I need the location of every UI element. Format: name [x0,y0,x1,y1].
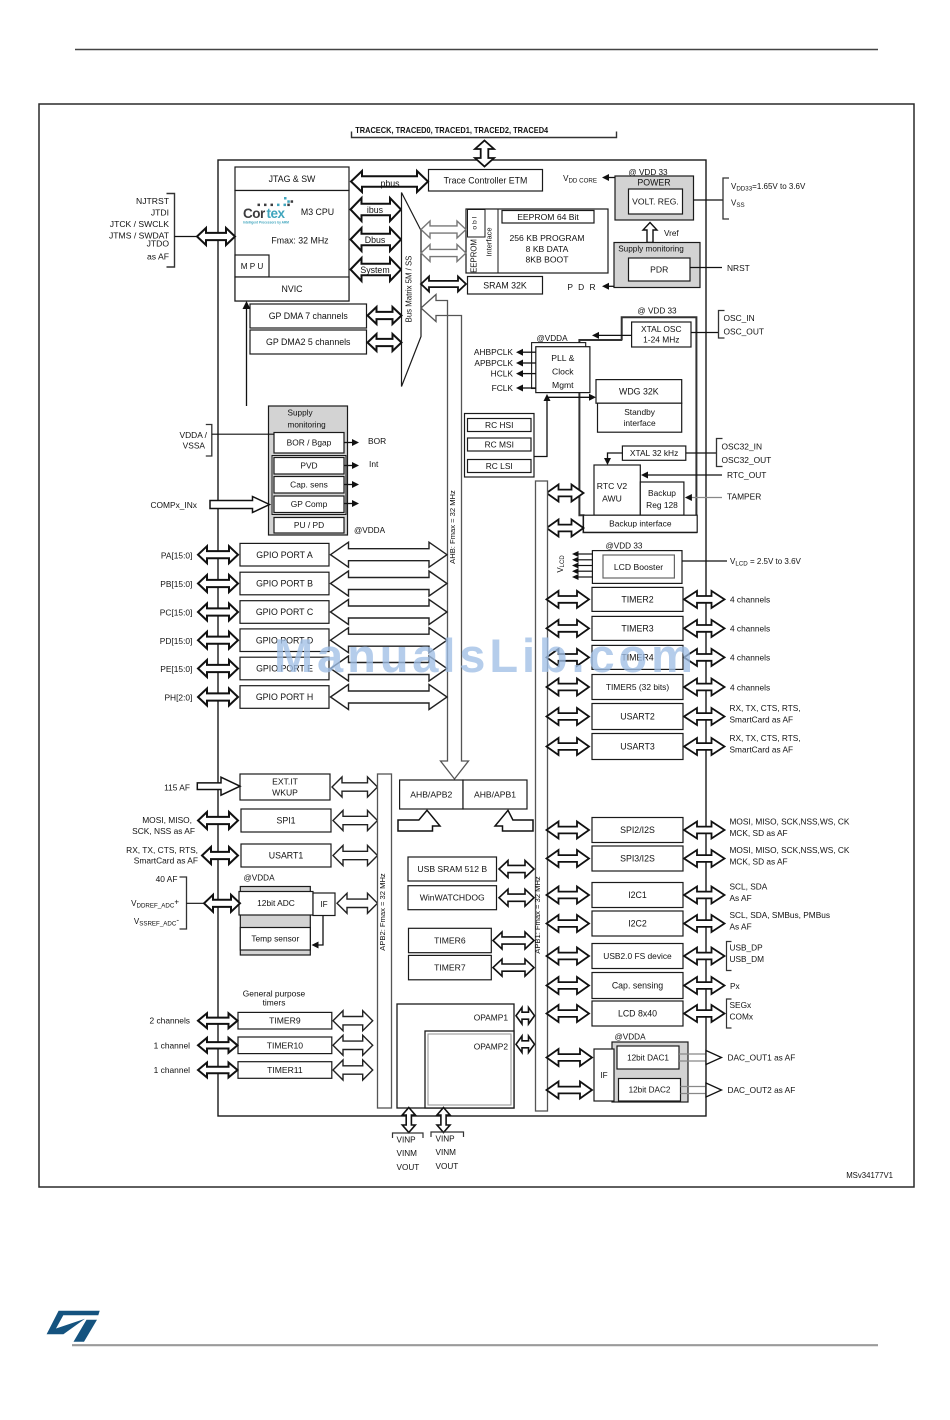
block RC LSI [468,460,532,473]
arrow TIMER11 to APB2 [333,1060,373,1080]
block supply monitoring left [269,406,348,535]
wire VLCD out [682,560,727,562]
arrow cap sens out [344,484,352,486]
block VOLT REG [629,189,683,214]
block WDG 32K [596,380,682,404]
svg-text:GP Comp: GP Comp [291,499,328,509]
svg-text:ibus: ibus [367,205,384,215]
arrow APB1 to TIMER5 (32 bits) [547,679,590,696]
svg-text:Int: Int [369,459,379,469]
arrow OPAMP2 pins [437,1108,450,1133]
arrow SPI1 left [198,812,238,829]
arrow APB1 to USART3 [547,738,590,755]
svg-text:o b I: o b I [472,216,479,229]
svg-text:GPIO PORT A: GPIO PORT A [256,550,313,560]
svg-text:AHB/APB1: AHB/APB1 [474,790,516,800]
svg-text:Dbus: Dbus [365,235,386,245]
block BOR Bgap [274,433,344,454]
svg-text:BOR / Bgap: BOR / Bgap [287,438,332,448]
svg-text:as AF: as AF [147,252,169,262]
svg-text:12bit ADC: 12bit ADC [257,898,295,908]
arrow GP comp out [344,503,352,505]
svg-text:@VDDA: @VDDA [536,334,568,343]
svg-text:SmartCard as AF: SmartCard as AF [730,714,794,724]
svg-text:PB[15:0]: PB[15:0] [160,579,192,589]
svg-text:Cap. sensing: Cap. sensing [612,981,663,991]
svg-text:USART1: USART1 [269,851,304,861]
block PVD [274,458,344,475]
svg-text:SRAM 32K: SRAM 32K [483,280,527,290]
block RC HSI [468,419,532,432]
svg-text:VINP: VINP [397,1136,417,1145]
svg-text:TIMER10: TIMER10 [267,1040,304,1050]
block flash memory [466,209,608,273]
svg-text:AWU: AWU [602,494,622,504]
arrow APB1 to DAC1 [547,1049,593,1066]
svg-text:8 KB DATA: 8 KB DATA [526,244,569,254]
arrow bus to flash 2 [421,245,466,262]
arrow PE[15:0] left [198,660,238,677]
svg-text:RC HSI: RC HSI [485,420,513,430]
svg-text:VOUT: VOUT [436,1162,459,1171]
svg-text:As AF: As AF [730,921,752,931]
block I2C1 [592,883,683,908]
trace bracket [352,132,617,138]
svg-text:SCL, SDA, SMBus, PMBus: SCL, SDA, SMBus, PMBus [730,910,831,920]
block EEPROM 64 Bit [502,211,594,224]
svg-text:Fmax: 32 MHz: Fmax: 32 MHz [271,236,328,246]
arrow TIMER5 (32 bits) out [684,679,725,696]
svg-text:COMPx_INx: COMPx_INx [150,500,197,510]
arrow PB[15:0] left [198,575,238,592]
svg-text:115 AF: 115 AF [164,783,190,793]
arrow DMA1 to bus matrix [368,307,402,324]
svg-text:@ VDD 33: @ VDD 33 [637,307,677,316]
bracket ADC refs [180,877,187,929]
block TIMER3 [592,616,683,640]
svg-text:NVIC: NVIC [281,284,303,294]
bracket USB2.0 FS device [727,942,732,971]
svg-text:pbus: pbus [380,179,400,189]
svg-text:PDR: PDR [650,265,668,275]
svg-text:MCK, SD as AF: MCK, SD as AF [730,856,788,866]
arrow USB2.0 FS device out [684,948,725,965]
svg-text:GP DMA2 5 channels: GP DMA2 5 channels [266,337,351,347]
svg-text:GPIO PORT H: GPIO PORT H [256,692,313,702]
svg-text:SPI3/I2S: SPI3/I2S [620,854,655,864]
svg-text:tex: tex [267,206,286,221]
svg-text:Intelligent Processors by ARM: Intelligent Processors by ARM [243,221,289,225]
svg-text:PLL &: PLL & [551,353,574,363]
bus matrix polygon [402,193,422,387]
block temp sensor [240,928,310,951]
svg-text:SEGx: SEGx [730,1000,753,1010]
arrow GPIO PORT A to AHB [331,542,448,567]
block GP DMA 7 channels [250,304,367,328]
svg-text:Interface: Interface [485,227,494,256]
svg-text:FCLK: FCLK [492,383,514,393]
arrow SPI1 to APB2 [333,811,378,831]
block NVIC [235,277,349,301]
block TIMER7 [409,955,492,979]
flash obI box [468,210,486,238]
svg-text:APB2: Fmax = 32 MHz: APB2: Fmax = 32 MHz [378,873,387,951]
arrow LCD 8x40 out [684,1005,725,1022]
svg-text:MOSI, MISO, SCK,NSS,WS, CK: MOSI, MISO, SCK,NSS,WS, CK [730,817,850,827]
svg-text:OSC_IN: OSC_IN [724,313,755,323]
svg-text:USART2: USART2 [620,712,655,722]
arrow ADC to APB2 [337,893,378,913]
arrow PH[2:0] left [198,689,238,706]
arrow TIMER9 left [198,1013,238,1028]
arrow APB1 to Cap. sensing [547,977,590,994]
block GPIO PORT C [240,601,329,624]
svg-text:AHB/APB2: AHB/APB2 [410,790,452,800]
arrow USART1 left [202,847,238,864]
block TIMER2 [592,587,683,611]
svg-text:OSC32_OUT: OSC32_OUT [722,455,772,465]
block SPI2/I2S [592,818,683,843]
svg-text:USB SRAM 512 B: USB SRAM 512 B [417,864,487,874]
svg-text:USB_DM: USB_DM [730,954,765,964]
svg-text:COMx: COMx [730,1011,754,1021]
arrow SPI3/I2S out [684,850,725,867]
block TIMER9 [238,1012,332,1029]
svg-text:LCD Booster: LCD Booster [614,562,663,572]
block LCD 8x40 [592,1001,683,1026]
wire TAMPER [691,497,723,499]
svg-text:M3 CPU: M3 CPU [301,207,334,217]
svg-text:Supply monitoring: Supply monitoring [618,245,684,254]
arrow APB1 to SPI3/I2S [547,850,590,867]
svg-text:SmartCard as AF: SmartCard as AF [730,744,794,754]
arrow GPIO PORT E to AHB [331,656,448,681]
svg-text:256 KB PROGRAM: 256 KB PROGRAM [510,233,585,243]
arrow I2C1 out [684,887,725,904]
block Cortex M3 CPU [235,191,349,302]
block GP Comp [274,496,344,513]
svg-text:VINM: VINM [436,1148,457,1157]
svg-text:@VDDA: @VDDA [354,526,386,535]
svg-text:Mgmt: Mgmt [552,380,574,390]
block standby interface [598,403,682,432]
bracket VIN group1 [393,1133,424,1138]
svg-text:As AF: As AF [730,893,752,903]
inner diagram frame [218,160,706,1116]
wire RC to PLL [534,400,547,457]
svg-text:JTCK / SWCLK: JTCK / SWCLK [110,219,169,229]
block POWER [615,176,694,220]
svg-text:MCK, SD as AF: MCK, SD as AF [730,828,788,838]
JTAG pin labels [109,196,170,262]
svg-text:XTAL OSC: XTAL OSC [641,324,682,334]
arrow APB1 to TIMER3 [547,620,590,637]
svg-text:VINM: VINM [397,1149,418,1158]
block USB2.0 FS device [592,944,683,969]
svg-text:Supply: Supply [288,408,314,417]
wire XTAL32 right [686,452,717,454]
bracket VIN group2 [431,1132,464,1137]
block XTAL OSC [632,322,691,347]
block TIMER10 [238,1037,332,1054]
svg-text:AHB: Fmax = 32 MHz: AHB: Fmax = 32 MHz [448,490,457,564]
svg-text:POWER: POWER [637,178,670,188]
outer figure frame [39,104,914,1187]
svg-text:TIMER9: TIMER9 [269,1016,301,1026]
block USB SRAM 512 B [408,857,497,881]
svg-text:NRST: NRST [727,263,750,273]
wire IF to temp sensor [317,916,323,946]
arrow APB1 to I2C2 [547,915,590,932]
bracket OSC [719,311,725,339]
svg-text:PA[15:0]: PA[15:0] [161,550,193,560]
wire VDD CORE [608,177,615,179]
block AHB APB2 bridge [400,780,463,809]
block OPAMP2 [425,1031,514,1108]
block Cap. sensing [592,973,683,999]
bracket VDD33 [723,178,729,219]
block RC group [465,414,535,478]
block backup interface [584,515,698,532]
svg-text:NJTRST: NJTRST [136,196,170,206]
bracket LCD 8x40 [727,999,732,1028]
svg-text:IF: IF [600,1071,607,1080]
svg-text:RC MSI: RC MSI [485,439,514,449]
svg-text:I2C2: I2C2 [628,919,647,929]
arrow JTAG CPU [197,228,235,245]
svg-text:GP DMA 7 channels: GP DMA 7 channels [269,311,349,321]
block PLL clock mgmt [532,343,586,389]
arrow TIMER3 out [684,620,725,637]
svg-text:JTDO: JTDO [147,239,170,249]
svg-text:@VDD 33: @VDD 33 [606,542,643,551]
svg-text:System: System [360,265,389,275]
svg-text:12bit DAC1: 12bit DAC1 [627,1053,669,1062]
flash interface divider [497,209,499,273]
svg-text:monitoring: monitoring [288,421,327,430]
arrow APB1 to USB2.0 FS device [547,948,590,965]
arrow USART3 out [684,738,725,755]
block GPIO PORT H [240,686,329,709]
svg-text:@VDDA: @VDDA [614,1033,646,1042]
block ADC IF [313,893,335,916]
svg-text:VOUT: VOUT [397,1163,420,1172]
svg-text:TAMPER: TAMPER [727,492,761,502]
svg-text:Cor: Cor [243,206,266,221]
svg-text:PD[15:0]: PD[15:0] [160,636,193,646]
JTAG bracket [167,194,175,268]
arrow SPI2/I2S out [684,822,725,839]
arrow PVD out [344,465,352,467]
block I2C2 [592,911,683,936]
svg-text:TIMER5 (32 bits): TIMER5 (32 bits) [606,682,670,692]
svg-text:GPIO PORT B: GPIO PORT B [256,579,313,589]
bus arrow Dbus [351,228,402,251]
svg-text:GPIO PORT C: GPIO PORT C [256,607,314,617]
bracket OSC32 [717,439,723,467]
svg-text:IF: IF [320,900,327,909]
svg-text:TIMER2: TIMER2 [621,595,653,605]
arrow TIMER9 to APB2 [333,1011,373,1031]
arrow OPAMP1 to APB1 [516,1008,535,1025]
elbow arrow bridge to APB2 [398,810,440,831]
svg-text:VOLT. REG.: VOLT. REG. [632,197,679,207]
VLCD arrows [572,551,592,580]
arrow TIMER7 to APB1 [493,959,534,976]
svg-text:4 channels: 4 channels [730,682,770,692]
block DAC group [612,1042,688,1102]
svg-text:ManualsLib.com: ManualsLib.com [274,629,697,682]
arrow Vref [643,223,657,243]
arrow USART1 to APB2 [333,846,378,866]
block XTAL 32 kHz [622,446,685,460]
arrow APB1 to DAC2 [547,1082,593,1099]
arrow I2C2 out [684,915,725,932]
APB2 bus band [378,774,392,1108]
block GPIO PORT D [240,629,329,652]
svg-text:AHBPCLK: AHBPCLK [474,347,514,357]
arrow DAC OUT2 [681,1086,707,1088]
svg-text:Backup interface: Backup interface [609,519,672,529]
wire to WDG [547,396,591,398]
svg-text:4 channels: 4 channels [730,653,770,663]
block TIMER11 [238,1062,332,1079]
svg-text:WinWATCHDOG: WinWATCHDOG [420,893,485,903]
wire JTAG to CPU [175,236,199,238]
svg-text:EEPROM 64 Bit: EEPROM 64 Bit [517,212,579,222]
wire bracket to arrow [187,902,205,904]
svg-text:MOSI, MISO,: MOSI, MISO, [142,815,192,825]
svg-text:Backup: Backup [648,488,676,498]
block DAC IF [594,1049,614,1101]
block AHB APB1 bridge [463,780,527,809]
svg-text:PH[2:0]: PH[2:0] [164,693,192,703]
block Trace Controller ETM [429,170,543,192]
svg-text:TIMER7: TIMER7 [434,963,466,973]
svg-text:MOSI, MISO, SCK,NSS,WS, CK: MOSI, MISO, SCK,NSS,WS, CK [730,845,850,855]
arrow 115AF to EXTIT [197,777,240,795]
arrow OPAMP1 pins [402,1108,415,1133]
arrow PA[15:0] left [198,546,238,563]
block 12bit DAC2 [619,1079,681,1102]
wire XTAL OSC to PLL [597,334,632,336]
svg-text:VINP: VINP [436,1135,456,1144]
block supply monitoring PDR [614,243,700,288]
svg-text:RC LSI: RC LSI [486,461,513,471]
svg-text:SCK, NSS as AF: SCK, NSS as AF [132,826,195,836]
arrow APB1 to I2C1 [547,887,590,904]
svg-text:Cap. sens: Cap. sens [290,480,328,490]
APB1 bus band [536,481,548,1111]
block SPI1 [241,809,331,832]
svg-text:EEPROM: EEPROM [470,239,479,273]
wire XTAL OSC right [691,332,719,334]
svg-text:RX, TX, CTS, RTS,: RX, TX, CTS, RTS, [730,703,801,713]
svg-text:P D R: P D R [567,282,597,292]
block USART2 [592,704,683,730]
arrow GPIO PORT B to AHB [331,571,448,596]
svg-text:Bus Matrix 5M / SS: Bus Matrix 5M / SS [405,256,414,323]
svg-text:USB_DP: USB_DP [730,943,764,953]
svg-text:WKUP: WKUP [272,788,298,798]
VDD33 domain outline [579,317,696,532]
block EXT IT WKUP [240,774,330,800]
bus arrow pbus [351,171,428,192]
svg-text:MSv34177V1: MSv34177V1 [846,1171,893,1180]
block RTC V2 AWU [594,465,640,515]
svg-text:Temp sensor: Temp sensor [251,934,299,944]
clock output arrows [474,347,536,393]
arrow bus to flash 1 [421,221,466,238]
trace vertical double arrow [475,141,494,167]
svg-text:DAC_OUT2 as AF: DAC_OUT2 as AF [728,1085,796,1095]
arrow ADC left [204,895,240,912]
block USART3 [592,734,683,760]
arrow BOR out [344,442,352,444]
wire NVIC to supply monitoring [246,307,248,406]
wire POWER to bracket [694,199,723,201]
arrow GPIO PORT H to AHB [331,685,448,710]
svg-text:TIMER6: TIMER6 [434,936,466,946]
svg-text:1 channel: 1 channel [154,1065,190,1075]
svg-text:2 channels: 2 channels [149,1016,190,1026]
svg-text:RX, TX, CTS, RTS,: RX, TX, CTS, RTS, [730,733,801,743]
footer rule [72,1344,878,1346]
svg-text:HCLK: HCLK [491,369,514,379]
block GPIO PORT E [240,657,329,680]
wire VDDA to BOR [212,433,274,435]
svg-text:1 channel: 1 channel [154,1040,190,1050]
arrow OPAMP2 to APB1 [516,1036,535,1053]
svg-text:PVD: PVD [300,461,317,471]
arrow TIMER4 out [684,649,725,666]
svg-text:Standby: Standby [624,407,656,417]
svg-text:LCD 8x40: LCD 8x40 [618,1009,657,1019]
ST logo [47,1311,100,1342]
svg-text:TRACECK, TRACED0, TRACED1, TRA: TRACECK, TRACED0, TRACED1, TRACED2, TRAC… [355,125,548,135]
svg-text:APBPCLK: APBPCLK [474,358,513,368]
svg-text:interface: interface [624,418,656,428]
svg-text:PU / PD: PU / PD [294,520,324,530]
block LCD booster [592,551,682,584]
bracket VDDA [206,425,212,457]
arrow WinWATCHDOG to APB1 [499,889,534,906]
svg-text:USB2.0 FS device: USB2.0 FS device [603,951,672,961]
block OPAMP1 [397,1004,514,1108]
block GP DMA2 5 channels [250,330,367,354]
block 12bit ADC [239,892,313,916]
block USART1 [241,844,331,867]
wire RTC_OUT [647,474,722,476]
svg-text:RTC V2: RTC V2 [597,481,628,491]
svg-text:RX, TX, CTS, RTS,: RX, TX, CTS, RTS, [126,845,198,855]
svg-text:M P U: M P U [241,262,264,271]
arrow Cap. sensing out [684,977,725,994]
svg-text:SCL, SDA: SCL, SDA [730,882,768,892]
block JTAG and SW [235,167,349,191]
svg-text:PE[15:0]: PE[15:0] [160,664,192,674]
arrow APB1 to LCD 8x40 [547,1005,590,1022]
svg-text:4 channels: 4 channels [730,595,770,605]
arrow TIMER6 to APB1 [493,932,534,949]
block PU PD [274,518,344,534]
block TIMER6 [409,928,492,952]
svg-text:8KB BOOT: 8KB BOOT [526,255,570,265]
svg-text:BOR: BOR [368,436,386,446]
svg-text:4 channels: 4 channels [730,624,770,634]
arrow bus to SRAM [421,277,466,292]
group PVD box [272,456,346,515]
